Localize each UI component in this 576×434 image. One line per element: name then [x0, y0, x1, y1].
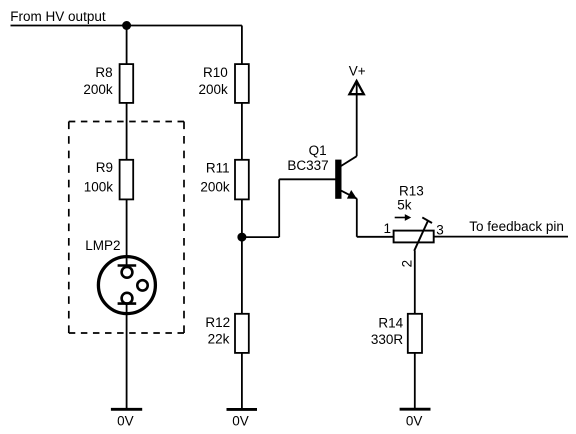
svg-text:LMP2: LMP2: [85, 238, 120, 253]
svg-text:200k: 200k: [200, 179, 230, 194]
wire: R8 bottom to R9 top: [126, 103, 128, 160]
wire: R13 pin 3 to feedback: [434, 236, 568, 238]
lamp LMP2 symbol: [98, 257, 155, 314]
transistor Q1 emitter arrowhead: [347, 190, 357, 199]
junction: divider node to Q1 base: [237, 233, 246, 242]
transistor Q1 emitter lead: [341, 191, 357, 199]
svg-text:BC337: BC337: [287, 158, 328, 173]
svg-text:0V: 0V: [232, 414, 249, 429]
resistor R14 body: [408, 314, 422, 353]
wire: R10 top lead: [241, 26, 243, 65]
potentiometer R13 wiper (diagonal): [414, 221, 428, 251]
wire: collector to V+: [356, 82, 358, 157]
wire: R11 bottom through junction to R12 top: [241, 199, 243, 314]
svg-text:1: 1: [383, 221, 391, 236]
potentiometer R13 body: [394, 231, 434, 243]
svg-text:R13: R13: [399, 183, 424, 198]
ground 0V (left): [111, 408, 142, 411]
wire: R12 bottom to ground: [241, 353, 243, 410]
svg-text:R10: R10: [203, 65, 228, 80]
svg-text:R12: R12: [205, 315, 230, 330]
resistor R8 body: [120, 64, 134, 103]
wire: R9 bottom to lamp top electrode: [126, 199, 128, 266]
transistor Q1 base bar: [335, 160, 341, 199]
wire: R8 top lead: [126, 26, 128, 65]
svg-text:330R: 330R: [371, 332, 404, 347]
power symbol V+ (arrow): [349, 81, 363, 94]
svg-text:0V: 0V: [406, 413, 423, 428]
wire: lamp bottom electrode to ground: [126, 304, 128, 410]
svg-text:From HV output: From HV output: [10, 9, 106, 24]
junction: HV rail / R8 top: [122, 21, 131, 30]
svg-text:R9: R9: [96, 160, 113, 175]
wire: junction to base riser (horizontal): [242, 236, 279, 238]
wire: base riser (vertical): [278, 179, 280, 237]
resistor R9 body: [120, 160, 134, 200]
wire: R14 bottom to ground: [414, 353, 416, 410]
ground 0V (right): [400, 408, 431, 411]
svg-text:200k: 200k: [199, 82, 229, 97]
resistor R10 body: [235, 64, 249, 103]
potentiometer R13 wiper end tick: [422, 217, 432, 223]
transistor Q1 collector lead: [341, 156, 357, 166]
svg-text:5k: 5k: [397, 197, 412, 212]
wire: emitter down: [356, 199, 358, 237]
wire: HV output rail (top horizontal): [11, 25, 242, 27]
svg-text:22k: 22k: [208, 331, 230, 346]
wire: R10 bottom to R11 top: [241, 103, 243, 160]
svg-text:R14: R14: [378, 315, 403, 330]
svg-text:Q1: Q1: [309, 143, 327, 158]
svg-text:100k: 100k: [84, 179, 114, 194]
wire: emitter to R13 pin 1: [357, 236, 394, 238]
svg-text:2: 2: [400, 260, 415, 268]
svg-text:To feedback pin: To feedback pin: [469, 219, 564, 234]
wire: base lead into Q1: [279, 178, 336, 180]
ground 0V (middle): [227, 408, 258, 411]
svg-text:R11: R11: [206, 160, 230, 175]
resistor R12 body: [235, 314, 249, 353]
svg-text:V+: V+: [349, 64, 366, 79]
wire: R13 wiper to R14: [414, 251, 416, 315]
svg-text:0V: 0V: [117, 413, 134, 428]
dashed enclosure box (LMP2 module): [69, 122, 184, 334]
resistor R11 body: [235, 160, 249, 200]
svg-text:3: 3: [436, 222, 444, 237]
svg-text:200k: 200k: [83, 82, 113, 97]
adjustment arrow (R13): [395, 214, 412, 221]
svg-text:R8: R8: [95, 65, 112, 80]
